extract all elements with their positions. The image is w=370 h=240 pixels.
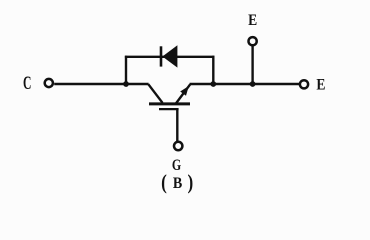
svg-text:E: E [248,12,257,29]
svg-text:G: G [172,156,181,174]
svg-text:): ) [188,171,194,194]
svg-text:C: C [23,73,31,93]
svg-text:B: B [173,175,182,192]
svg-text:E: E [316,77,325,94]
svg-text:(: ( [161,171,167,194]
